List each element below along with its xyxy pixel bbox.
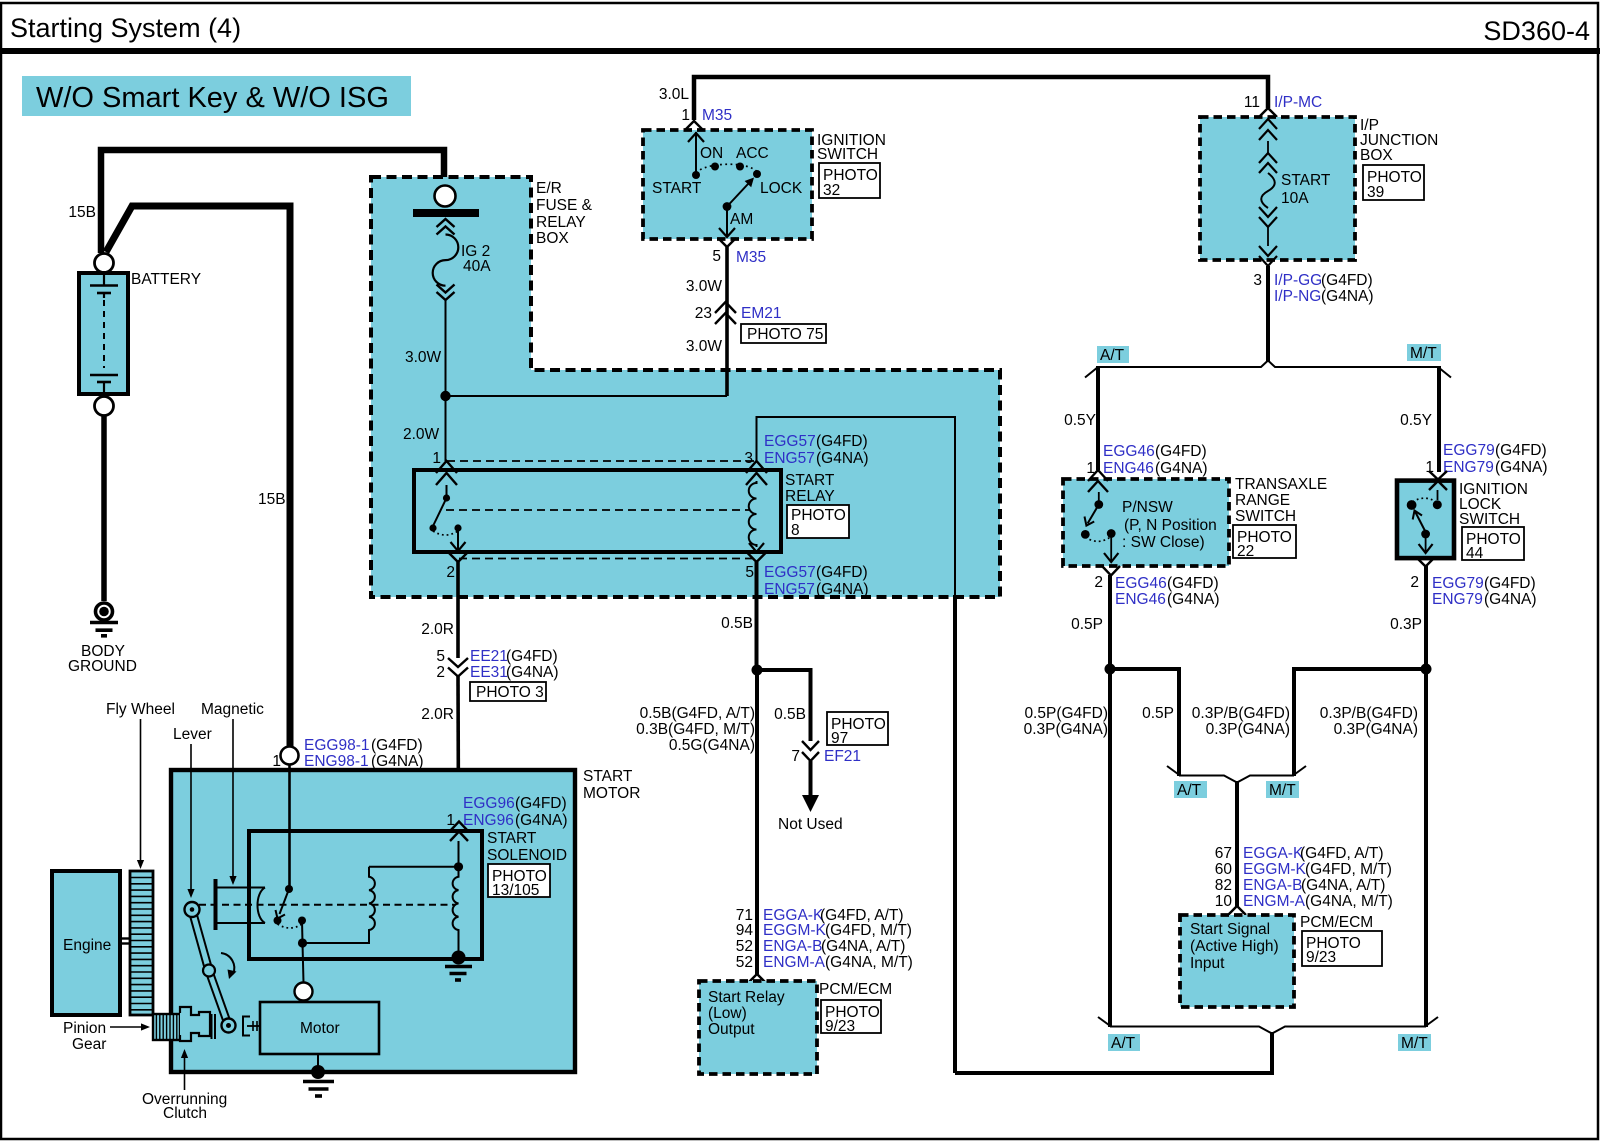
- left coil bottom link: [303, 930, 370, 943]
- relay switch contacts: [429, 485, 465, 551]
- svg-text:3.0W: 3.0W: [405, 349, 442, 366]
- svg-text:ACC: ACC: [736, 145, 769, 162]
- svg-text:(G4FD): (G4FD): [1155, 443, 1207, 460]
- svg-text:LOCK: LOCK: [760, 180, 803, 197]
- svg-text:82: 82: [1215, 877, 1232, 894]
- svg-text:52: 52: [736, 954, 753, 971]
- svg-text:60: 60: [1215, 861, 1233, 878]
- svg-text:0.5P: 0.5P: [1142, 705, 1174, 722]
- label EGG96/ENG96: [446, 795, 567, 829]
- svg-text:I/P-GG: I/P-GG: [1274, 272, 1322, 289]
- PHOTO 44 box: [1462, 527, 1524, 562]
- label I/P JUNCTION BOX: [1360, 117, 1438, 164]
- svg-text:RELAY: RELAY: [536, 214, 586, 231]
- svg-text:A/T: A/T: [1100, 347, 1125, 364]
- wire relay pin5 down: [755, 562, 759, 670]
- svg-text:9/23: 9/23: [1306, 949, 1336, 966]
- svg-text:START: START: [583, 768, 633, 785]
- svg-text:67: 67: [1215, 845, 1232, 862]
- shift lever: [185, 902, 236, 1033]
- svg-text:2: 2: [436, 664, 445, 681]
- svg-text:ENGM-A: ENGM-A: [1243, 893, 1306, 910]
- wire 15B battery to E/R fuse box (top cable): [101, 150, 444, 253]
- plunger dashed axis: [199, 904, 455, 906]
- label A/T bottom: [1108, 1034, 1140, 1052]
- svg-text:9/23: 9/23: [825, 1018, 855, 1035]
- connector chevron start relay output: [748, 974, 766, 983]
- svg-text:PCM/ECM: PCM/ECM: [1300, 914, 1373, 931]
- relay coil: [749, 481, 757, 547]
- svg-text:Input: Input: [1190, 955, 1225, 972]
- svg-text:22: 22: [1237, 543, 1254, 560]
- label 5/2 EE21 EE31: [436, 648, 558, 681]
- wire left main down: [1108, 669, 1112, 1027]
- body ground symbol: [90, 603, 118, 636]
- svg-text:EGGM-K: EGGM-K: [1243, 861, 1307, 878]
- svg-text:ENG57: ENG57: [764, 581, 815, 598]
- svg-text:M/T: M/T: [1401, 1035, 1428, 1052]
- clutch-motor link bracket: [243, 1017, 260, 1036]
- wire motor to ground: [317, 1054, 319, 1068]
- svg-text:START: START: [785, 472, 835, 489]
- solenoid hold-in coil (right): [453, 867, 459, 951]
- svg-text:0.3P/B(G4FD): 0.3P/B(G4FD): [1320, 705, 1418, 722]
- label P/NSW text: [1122, 499, 1217, 551]
- wire A/T branch down to P/NSW: [1096, 366, 1100, 470]
- svg-text:Engine: Engine: [63, 937, 111, 954]
- label E/R FUSE & RELAY BOX: [536, 180, 593, 247]
- svg-text:SWITCH: SWITCH: [1235, 508, 1296, 525]
- PHOTO 9/23 box right: [1302, 931, 1382, 966]
- label A/T mid: [1174, 781, 1207, 799]
- label Lever + leader: [173, 726, 212, 898]
- wire bottom merge return to relay: [955, 1032, 1272, 1073]
- dashed pin line 2-5: [459, 558, 754, 560]
- label Start Relay text: [708, 989, 785, 1038]
- fuse IG 2 40A: [433, 219, 459, 300]
- I/P junction box: [1200, 117, 1355, 260]
- ignition switch box: [643, 130, 812, 239]
- svg-text:P/NSW: P/NSW: [1122, 499, 1173, 516]
- svg-text:15B: 15B: [68, 204, 96, 221]
- connector chevron EGG46 pin2: [1102, 566, 1120, 576]
- ignition switch internals: [688, 132, 761, 237]
- plunger symbol: [216, 879, 266, 930]
- label IGNITION LOCK SWITCH: [1459, 481, 1528, 528]
- label 23 EM21: [695, 305, 782, 322]
- svg-text:2: 2: [1410, 574, 1419, 591]
- header divider line: [0, 48, 1600, 54]
- svg-text:7: 7: [791, 748, 800, 765]
- svg-text:MOTOR: MOTOR: [583, 785, 640, 802]
- fuse terminal circle: [435, 186, 456, 207]
- wire ignition switch to I/P-MC (top run): [694, 77, 1268, 120]
- svg-text:RANGE: RANGE: [1235, 492, 1290, 509]
- svg-text:1: 1: [432, 450, 441, 467]
- svg-text:0.5Y: 0.5Y: [1064, 412, 1096, 429]
- svg-text:EE31: EE31: [470, 664, 508, 681]
- svg-text:2: 2: [446, 564, 455, 581]
- label START MOTOR: [583, 768, 640, 802]
- svg-text:39: 39: [1367, 184, 1384, 201]
- svg-text:I/P-MC: I/P-MC: [1274, 94, 1322, 111]
- svg-text:(G4FD): (G4FD): [515, 795, 567, 812]
- wire right main down: [1424, 669, 1428, 1027]
- svg-text:(Low): (Low): [708, 1005, 747, 1022]
- svg-text:0.3P: 0.3P: [1390, 616, 1422, 633]
- motor box: [260, 1002, 379, 1054]
- svg-text:(G4FD): (G4FD): [1167, 575, 1219, 592]
- coil top link line: [369, 866, 459, 868]
- svg-text:EGG57: EGG57: [764, 564, 816, 581]
- svg-text:(P, N Position: (P, N Position: [1124, 517, 1217, 534]
- transaxle range switch box: [1063, 479, 1229, 566]
- svg-text:Start Relay: Start Relay: [708, 989, 785, 1006]
- label A/T (left split): [1097, 346, 1129, 364]
- svg-text:3: 3: [1253, 272, 1262, 289]
- connector chevron M35 pin5: [718, 238, 736, 247]
- svg-text:0.3P(G4NA): 0.3P(G4NA): [1334, 721, 1418, 738]
- svg-text:Fly Wheel: Fly Wheel: [106, 701, 175, 718]
- svg-text:8: 8: [791, 522, 800, 539]
- label pin 1 M35: [681, 107, 732, 124]
- wire relay pin2 down: [456, 562, 460, 658]
- junction node left: [1105, 664, 1116, 675]
- svg-text:40A: 40A: [463, 258, 491, 275]
- label 0.3P/B right: [1320, 705, 1418, 738]
- mid merge to start signal: [1167, 766, 1306, 783]
- bottom merge A/T M/T: [1098, 1017, 1438, 1034]
- not used arrow: [802, 761, 819, 812]
- labels 0.5B/0.3B/0.5G rows: [636, 705, 755, 754]
- wire A/T inner branch: [1110, 669, 1179, 776]
- svg-text:EM21: EM21: [741, 305, 782, 322]
- svg-text:Magnetic: Magnetic: [201, 701, 264, 718]
- label EGG57/ENG57 bottom: [764, 564, 869, 598]
- flywheel ring gear: [130, 871, 153, 1015]
- ignition switch position labels: [652, 145, 803, 228]
- relay pin 3 connector chevrons: [746, 461, 767, 485]
- engine-flywheel shaft: [120, 939, 130, 944]
- battery B1: [79, 273, 128, 394]
- svg-text:RELAY: RELAY: [785, 488, 835, 505]
- lever rotation arrow: [221, 953, 237, 979]
- battery bottom terminal: [95, 397, 114, 416]
- label 1 EGG79/ENG79: [1425, 442, 1547, 476]
- svg-text:2: 2: [1094, 574, 1103, 591]
- label Fly Wheel + leader: [106, 701, 175, 869]
- svg-text:EF21: EF21: [824, 748, 861, 765]
- svg-text:0.5B: 0.5B: [774, 706, 806, 723]
- label M/T bottom: [1398, 1034, 1431, 1052]
- labels 67/60/82/10 pin rows: [1215, 845, 1393, 910]
- label 0.3P/B mid: [1192, 705, 1290, 738]
- start relay output box: [699, 981, 817, 1074]
- label M/T (right split): [1407, 344, 1441, 362]
- svg-text:EGG46: EGG46: [1103, 443, 1155, 460]
- svg-text:SWITCH: SWITCH: [1459, 511, 1520, 528]
- relay pin 5 arrow and chevron: [748, 543, 766, 562]
- svg-text:M/T: M/T: [1269, 782, 1296, 799]
- PHOTO 39 box: [1363, 165, 1424, 201]
- connector EF21 chevrons: [802, 741, 819, 761]
- svg-text:M/T: M/T: [1410, 345, 1437, 362]
- svg-text:(G4FD): (G4FD): [1484, 575, 1536, 592]
- svg-text:0.5B(G4FD, A/T): 0.5B(G4FD, A/T): [640, 705, 755, 722]
- svg-text:SOLENOID: SOLENOID: [487, 847, 567, 864]
- pinion gear block: [153, 1014, 180, 1040]
- svg-text:FUSE &: FUSE &: [536, 197, 593, 214]
- PHOTO 13/105 box: [488, 864, 550, 899]
- svg-text:3.0W: 3.0W: [686, 278, 723, 295]
- svg-text:(G4NA, M/T): (G4NA, M/T): [825, 954, 913, 971]
- svg-text:Clutch: Clutch: [163, 1105, 207, 1122]
- motor ground node: [311, 1065, 325, 1079]
- svg-text:EGG57: EGG57: [764, 433, 816, 450]
- svg-text:(G4FD, M/T): (G4FD, M/T): [1305, 861, 1392, 878]
- connector chevron I/P-MC: [1259, 108, 1277, 117]
- label M/T mid: [1266, 781, 1299, 799]
- svg-text:SD360-4: SD360-4: [1483, 16, 1590, 46]
- wire 0.5B main down to PCM: [755, 670, 759, 975]
- wire I/P-GG down to split: [1266, 266, 1270, 361]
- dashed line switch to coil: [446, 509, 750, 511]
- svg-text:A/T: A/T: [1111, 1035, 1136, 1052]
- svg-text:11: 11: [1244, 94, 1260, 111]
- PHOTO 8 box: [787, 505, 849, 539]
- start signal input box: [1180, 915, 1294, 1007]
- svg-text:EGG79: EGG79: [1432, 575, 1484, 592]
- connector chevron M35 pin1: [685, 121, 703, 130]
- svg-text:A/T: A/T: [1177, 782, 1202, 799]
- svg-text:(G4NA): (G4NA): [816, 450, 869, 467]
- svg-text:94: 94: [736, 922, 754, 939]
- connector chevrons EGG46 pin1: [1088, 470, 1108, 492]
- label TRANSAXLE RANGE SWITCH: [1235, 476, 1327, 525]
- svg-text:0.3P(G4NA): 0.3P(G4NA): [1206, 721, 1290, 738]
- label BODY GROUND: [68, 643, 137, 675]
- P/NSW switch internals: [1081, 492, 1119, 562]
- battery top terminal: [95, 254, 114, 273]
- svg-text:0.3P(G4NA): 0.3P(G4NA): [1024, 721, 1108, 738]
- svg-text:(G4NA, A/T): (G4NA, A/T): [821, 938, 905, 955]
- svg-text:0.3P/B(G4FD): 0.3P/B(G4FD): [1192, 705, 1290, 722]
- svg-text:EGGM-K: EGGM-K: [763, 922, 827, 939]
- overrunning clutch assembly: [180, 1007, 215, 1041]
- connector circle EGG98-1: [281, 747, 299, 765]
- PHOTO 32 box: [819, 163, 880, 199]
- svg-text:AM: AM: [730, 211, 753, 228]
- label START 10A: [1281, 172, 1331, 207]
- wire x955 down to bottom merge: [953, 595, 957, 1073]
- svg-text:ENG79: ENG79: [1443, 459, 1494, 476]
- svg-text:97: 97: [831, 730, 848, 747]
- svg-text:0.5Y: 0.5Y: [1400, 412, 1432, 429]
- wire merged to start signal input: [1235, 781, 1239, 907]
- ignition lock switch internals: [1407, 490, 1442, 553]
- wire fuse down to relay pin 1: [445, 300, 447, 461]
- dashed pin line 1-3: [447, 460, 756, 462]
- wire EE21 down into start motor: [456, 676, 460, 822]
- svg-text:START: START: [1281, 172, 1331, 189]
- svg-text:2.0R: 2.0R: [421, 621, 454, 638]
- PHOTO 9/23 box left: [821, 1000, 881, 1035]
- svg-text:5: 5: [436, 648, 445, 665]
- wire EF21 branch: [757, 670, 811, 741]
- svg-text:EGG98-1: EGG98-1: [304, 737, 369, 754]
- svg-text:START: START: [487, 830, 537, 847]
- svg-text:(G4FD): (G4FD): [371, 737, 423, 754]
- fuse holder bar: [413, 209, 479, 217]
- E/R fuse & relay box (dashed block): [371, 177, 1000, 597]
- wire junction to M35 branch: [446, 395, 728, 397]
- svg-text:(G4NA, A/T): (G4NA, A/T): [1301, 877, 1385, 894]
- svg-text:Lever: Lever: [173, 726, 212, 743]
- svg-text:0.5P: 0.5P: [1071, 616, 1103, 633]
- wire relay pin3 loop to x955: [757, 417, 956, 596]
- ignition lock switch box: [1397, 481, 1454, 558]
- svg-text:0.5P(G4FD): 0.5P(G4FD): [1024, 705, 1108, 722]
- fuse START 10A: [1259, 119, 1277, 266]
- svg-text:Motor: Motor: [300, 1020, 340, 1037]
- wire EGG96 to coil node: [458, 841, 460, 866]
- svg-text:3: 3: [744, 450, 753, 467]
- svg-text:(G4NA): (G4NA): [1321, 288, 1374, 305]
- PHOTO 97 box: [827, 712, 888, 747]
- svg-text:ENG57: ENG57: [764, 450, 815, 467]
- svg-text:ENG98-1: ENG98-1: [304, 753, 369, 770]
- svg-text:Pinion: Pinion: [63, 1020, 106, 1037]
- svg-text:(G4NA): (G4NA): [515, 812, 568, 829]
- start solenoid box: [249, 831, 482, 959]
- svg-text:(Active High): (Active High): [1190, 938, 1279, 955]
- solenoid ground symbol: [445, 967, 472, 981]
- svg-text:(G4NA): (G4NA): [816, 581, 869, 598]
- svg-text:EGG96: EGG96: [463, 795, 515, 812]
- svg-text:EGG46: EGG46: [1115, 575, 1167, 592]
- svg-text:GROUND: GROUND: [68, 658, 137, 675]
- label Pinion Gear + arrow: [63, 1020, 150, 1053]
- wire EGG98-1 into solenoid switch: [288, 764, 291, 886]
- solenoid ground node: [452, 951, 466, 965]
- svg-text:(G4NA): (G4NA): [1484, 591, 1537, 608]
- svg-text:(G4NA, M/T): (G4NA, M/T): [1305, 893, 1393, 910]
- svg-text:START: START: [652, 180, 702, 197]
- svg-text:(G4NA): (G4NA): [1167, 591, 1220, 608]
- solenoid pull-in coil (left): [369, 867, 375, 943]
- svg-text:(G4NA): (G4NA): [371, 753, 424, 770]
- svg-text:(G4NA): (G4NA): [506, 664, 559, 681]
- svg-text:: SW Close): : SW Close): [1122, 534, 1205, 551]
- PHOTO 22 box: [1233, 525, 1296, 560]
- svg-text:(G4FD): (G4FD): [506, 648, 558, 665]
- svg-text:SWITCH: SWITCH: [817, 146, 878, 163]
- wire lock switch down to junction: [1424, 566, 1428, 669]
- svg-text:5: 5: [712, 248, 721, 265]
- svg-text:(G4NA): (G4NA): [1495, 459, 1548, 476]
- svg-text:M35: M35: [702, 107, 732, 124]
- motor supply circle: [295, 983, 313, 1001]
- solenoid switch contacts: [274, 885, 308, 983]
- label 2 EGG46/ENG46 bottom: [1094, 574, 1219, 608]
- label pin 5 M35: [712, 248, 766, 266]
- svg-text:I/P-NG: I/P-NG: [1274, 288, 1321, 305]
- banner W/O Smart Key: [22, 76, 411, 116]
- svg-text:10A: 10A: [1281, 190, 1309, 207]
- label EGG57/ENG57 top: [764, 433, 869, 467]
- svg-text:Gear: Gear: [72, 1036, 106, 1053]
- svg-text:ENGA-B: ENGA-B: [763, 938, 822, 955]
- svg-text:3.0L: 3.0L: [659, 86, 690, 103]
- junction node fuse/ignition feed: [440, 391, 450, 401]
- svg-text:ENGM-A: ENGM-A: [763, 954, 826, 971]
- svg-text:2.0W: 2.0W: [403, 426, 440, 443]
- A/T M/T split: [1085, 361, 1451, 378]
- wire P/NSW down to junction: [1108, 575, 1112, 669]
- start relay box: [414, 470, 781, 552]
- label START RELAY: [785, 472, 835, 505]
- connector chevron EGG79 pin2: [1417, 558, 1434, 567]
- svg-text:44: 44: [1466, 545, 1484, 562]
- wire battery to body ground: [101, 415, 107, 601]
- connector chevron start signal: [1228, 906, 1246, 915]
- start motor box: [171, 770, 575, 1072]
- svg-text:(G4FD, M/T): (G4FD, M/T): [825, 922, 912, 939]
- connector chevrons EGG96 pin1: [450, 822, 468, 842]
- coil top junction node: [454, 862, 463, 871]
- svg-text:23: 23: [695, 305, 712, 322]
- svg-text:EGG79: EGG79: [1443, 442, 1495, 459]
- label 3 I/P-GG I/P-NG: [1253, 272, 1373, 305]
- svg-text:1: 1: [681, 107, 690, 124]
- svg-text:Starting System (4): Starting System (4): [10, 13, 241, 43]
- motor ground symbol: [303, 1082, 334, 1097]
- connector EM21 chevrons: [715, 302, 736, 324]
- labels 71/94/52/52 pin rows: [736, 907, 913, 971]
- svg-text:(G4FD): (G4FD): [816, 433, 868, 450]
- wire M/T inner branch: [1294, 669, 1426, 776]
- label 2 EGG79/ENG79 bottom: [1410, 574, 1536, 608]
- svg-text:ON: ON: [700, 145, 723, 162]
- svg-text:EGGA-K: EGGA-K: [1243, 845, 1304, 862]
- engine box: [52, 871, 120, 1015]
- label Magnetic + leader: [201, 701, 264, 885]
- svg-text:TRANSAXLE: TRANSAXLE: [1235, 476, 1327, 493]
- label 11 I/P-MC: [1244, 94, 1322, 111]
- PHOTO 3 box: [470, 682, 546, 701]
- svg-text:PCM/ECM: PCM/ECM: [819, 981, 892, 998]
- svg-text:15B: 15B: [258, 491, 286, 508]
- svg-text:M35: M35: [736, 249, 766, 266]
- svg-text:52: 52: [736, 938, 753, 955]
- svg-text:2.0R: 2.0R: [421, 706, 454, 723]
- svg-text:BOX: BOX: [536, 230, 569, 247]
- svg-text:(G4NA): (G4NA): [1155, 460, 1208, 477]
- svg-text:0.3B(G4FD, M/T): 0.3B(G4FD, M/T): [636, 721, 755, 738]
- svg-text:13/105: 13/105: [492, 882, 539, 899]
- relay pin 2 chevron: [449, 553, 467, 562]
- svg-text:5: 5: [745, 564, 754, 581]
- wire circle to motor: [303, 1001, 305, 1004]
- svg-text:(G4FD): (G4FD): [1495, 442, 1547, 459]
- svg-text:BATTERY: BATTERY: [131, 271, 201, 288]
- label Start Signal text: [1190, 921, 1279, 972]
- svg-text:32: 32: [823, 182, 840, 199]
- svg-text:(G4FD, A/T): (G4FD, A/T): [1300, 845, 1384, 862]
- svg-text:0.5G(G4NA): 0.5G(G4NA): [669, 737, 755, 754]
- svg-text:EE21: EE21: [470, 648, 508, 665]
- PHOTO 75 box: [741, 324, 826, 343]
